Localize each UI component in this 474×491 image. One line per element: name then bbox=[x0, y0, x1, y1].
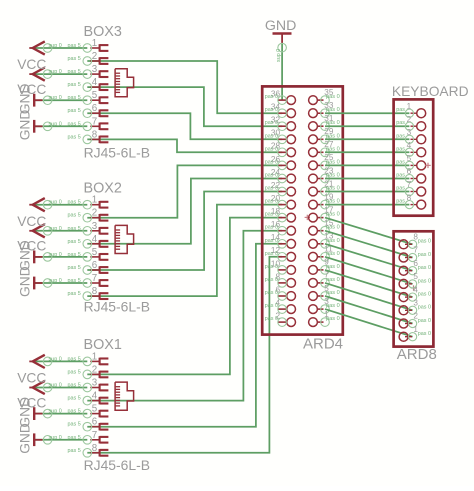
svg-text:sup 0: sup 0 bbox=[49, 200, 62, 206]
svg-text:pas: pas bbox=[396, 159, 405, 165]
svg-text:pas 5: pas 5 bbox=[68, 213, 81, 219]
svg-text:pas 0: pas 0 bbox=[265, 316, 278, 322]
ground symbol (BOX2 pin 7) bbox=[34, 277, 42, 290]
junction circle supply (BOX3 pin 5) bbox=[43, 96, 52, 105]
wire GND to ARD4 pin 36 bbox=[281, 44, 283, 101]
svg-text:pas 5: pas 5 bbox=[68, 356, 81, 362]
origin cross ARD4 bbox=[305, 215, 310, 220]
svg-text:pas 0: pas 0 bbox=[418, 265, 431, 271]
svg-text:2: 2 bbox=[92, 364, 97, 375]
pin ARD4.13 (right row 12) bbox=[309, 232, 340, 249]
pin ARD4.6 (left row 16) bbox=[265, 285, 296, 300]
svg-text:pas 0: pas 0 bbox=[418, 305, 431, 311]
pin ARD4.25 (right row 6) bbox=[309, 153, 340, 170]
svg-text:sup 0: sup 0 bbox=[49, 356, 62, 362]
wire supply to BOX3 pin 7 bbox=[33, 125, 87, 127]
pin ARD4.21 (right row 8) bbox=[309, 179, 340, 196]
pin ARD8.5 bbox=[399, 272, 431, 288]
svg-text:BOX1: BOX1 bbox=[84, 337, 122, 353]
svg-text:pas 0: pas 0 bbox=[418, 252, 431, 258]
wire ARD4 to ARD8 pin 1 bbox=[325, 309, 413, 337]
pin ARD8.2 bbox=[399, 312, 431, 328]
wire BOX2 pin 8 to ARD4 (bend x=216.9) bbox=[87, 205, 282, 297]
svg-text:pas 0: pas 0 bbox=[326, 173, 340, 179]
svg-text:3: 3 bbox=[92, 64, 98, 75]
pin ARD4.2 (left row 18) bbox=[265, 312, 296, 327]
pin KEYBOARD.1 bbox=[396, 102, 425, 118]
svg-text:GND: GND bbox=[17, 110, 32, 141]
pin BOX1.7 bbox=[83, 430, 108, 444]
pin ARD4.33 (right row 2) bbox=[309, 101, 340, 118]
pin BOX3.4 bbox=[83, 77, 108, 91]
svg-text:pas 0: pas 0 bbox=[265, 290, 278, 296]
svg-text:4: 4 bbox=[407, 141, 412, 150]
svg-text:pas 5: pas 5 bbox=[68, 435, 81, 441]
svg-text:GND: GND bbox=[17, 423, 32, 454]
pin junction circle GND bbox=[278, 43, 287, 52]
svg-text:pas 0: pas 0 bbox=[326, 199, 340, 205]
pin BOX3.6 bbox=[83, 103, 108, 117]
svg-text:RJ45-6L-B: RJ45-6L-B bbox=[84, 457, 150, 473]
ground GND supply symbol (top) bbox=[265, 18, 297, 44]
wire BOX1 pin 2 to ARD4 (bend x=229.9) bbox=[87, 218, 282, 375]
svg-text:RJ45-6L-B: RJ45-6L-B bbox=[84, 299, 150, 315]
wire BOX3 pin 4 to ARD4 (bend x=203.9) bbox=[87, 87, 282, 126]
svg-text:pas 5: pas 5 bbox=[68, 291, 81, 297]
pin ARD4.15 (right row 11) bbox=[309, 219, 340, 236]
pin ARD4.1 (right row 18) bbox=[309, 310, 340, 327]
wire supply to BOX2 pin 1 bbox=[33, 204, 87, 206]
svg-text:3: 3 bbox=[92, 378, 98, 389]
svg-text:pas 0: pas 0 bbox=[326, 107, 340, 113]
svg-text:pas: pas bbox=[396, 107, 405, 113]
wire BOX3 pin 6 to ARD4 (bend x=190.4) bbox=[87, 113, 282, 139]
svg-text:pas 5: pas 5 bbox=[68, 95, 81, 101]
svg-text:pas 0: pas 0 bbox=[326, 316, 340, 322]
wire supply to BOX1 pin 7 bbox=[33, 439, 87, 441]
svg-text:sup 0: sup 0 bbox=[49, 383, 62, 389]
svg-text:7: 7 bbox=[407, 180, 412, 189]
svg-text:pas 0: pas 0 bbox=[326, 212, 340, 218]
pin ARD4.24 (left row 7) bbox=[265, 168, 296, 183]
supply VCC arrow (BOX3 pin 1) bbox=[29, 41, 45, 54]
pin BOX3.1 bbox=[83, 38, 108, 52]
origin cross KEYBOARD bbox=[425, 163, 430, 168]
svg-text:pas 5: pas 5 bbox=[68, 265, 81, 271]
wire ARD4 to KEYBOARD pin 3 bbox=[325, 138, 409, 140]
svg-text:GND: GND bbox=[17, 240, 32, 271]
pin ARD8.1 bbox=[399, 325, 431, 341]
svg-text:5: 5 bbox=[407, 154, 412, 163]
wire supply to BOX2 pin 3 bbox=[33, 230, 87, 232]
svg-text:GND: GND bbox=[17, 84, 32, 115]
pin KEYBOARD.5 bbox=[396, 154, 425, 170]
svg-text:pas 0: pas 0 bbox=[265, 212, 278, 218]
pin BOX1.2 bbox=[83, 364, 108, 378]
svg-text:8: 8 bbox=[92, 286, 98, 297]
svg-text:pas 0: pas 0 bbox=[326, 303, 340, 309]
junction circle supply (BOX3 pin 7) bbox=[43, 122, 52, 131]
svg-text:pas 5: pas 5 bbox=[68, 409, 81, 415]
svg-text:pas 5: pas 5 bbox=[68, 422, 81, 428]
wire ARD4 to KEYBOARD pin 7 bbox=[325, 191, 409, 193]
svg-text:BOX3: BOX3 bbox=[84, 24, 122, 40]
svg-text:pas 0: pas 0 bbox=[265, 146, 278, 152]
component outline BOX3 RJ45 jack icon bbox=[115, 69, 134, 97]
pin ARD4.28 (left row 5) bbox=[265, 142, 296, 157]
supply VCC arrow (BOX1 pin 3) bbox=[29, 381, 45, 394]
wire ARD4 to ARD8 pin 8 bbox=[325, 218, 413, 245]
svg-text:3: 3 bbox=[92, 221, 98, 232]
svg-text:pas 5: pas 5 bbox=[68, 383, 81, 389]
pin ARD8.8 bbox=[399, 233, 431, 249]
supply VCC arrow (BOX2 pin 1) bbox=[29, 198, 45, 211]
svg-text:pas: pas bbox=[396, 199, 405, 205]
ground symbol (BOX3 pin 7) bbox=[34, 120, 42, 133]
svg-text:pas 0: pas 0 bbox=[326, 225, 340, 231]
svg-text:pas 0: pas 0 bbox=[326, 159, 340, 165]
pin ARD4.10 (left row 14) bbox=[265, 259, 296, 274]
svg-text:pas 5: pas 5 bbox=[68, 43, 81, 49]
pin ARD4.19 (right row 9) bbox=[309, 192, 340, 209]
svg-text:pas 0: pas 0 bbox=[326, 251, 340, 257]
svg-text:pas 0: pas 0 bbox=[265, 186, 278, 192]
svg-text:8: 8 bbox=[92, 443, 98, 454]
IC ARD4 outline bbox=[262, 86, 343, 334]
svg-text:pas 0: pas 0 bbox=[265, 133, 278, 139]
svg-text:1: 1 bbox=[407, 102, 412, 111]
svg-text:pas 5: pas 5 bbox=[68, 82, 81, 88]
supply VCC arrow (BOX3 pin 3) bbox=[29, 68, 45, 81]
svg-text:pas 0: pas 0 bbox=[326, 94, 340, 100]
svg-text:pas 0: pas 0 bbox=[265, 120, 278, 126]
svg-text:pas 0: pas 0 bbox=[326, 238, 340, 244]
pin ARD4.30 (left row 4) bbox=[265, 129, 296, 144]
pin ARD4.35 (right row 1) bbox=[309, 88, 340, 105]
svg-text:pas: pas bbox=[396, 133, 405, 139]
connector KEYBOARD outline bbox=[394, 99, 434, 215]
svg-text:RJ45-6L-B: RJ45-6L-B bbox=[84, 145, 150, 161]
svg-text:sup 0: sup 0 bbox=[49, 226, 62, 232]
svg-text:4: 4 bbox=[92, 391, 98, 402]
svg-text:7: 7 bbox=[92, 116, 97, 127]
svg-text:pas 5: pas 5 bbox=[68, 396, 81, 402]
pin ARD4.5 (right row 16) bbox=[309, 284, 340, 301]
junction circle supply (BOX2 pin 5) bbox=[43, 253, 52, 262]
component outline BOX1 RJ45 jack icon bbox=[115, 382, 134, 410]
svg-text:pas 0: pas 0 bbox=[418, 278, 431, 284]
pin ARD4.22 (left row 8) bbox=[265, 181, 296, 196]
svg-text:sup 0: sup 0 bbox=[49, 69, 62, 75]
pin ARD4.16 (left row 11) bbox=[265, 220, 296, 235]
svg-text:pas: pas bbox=[396, 173, 405, 179]
svg-text:8: 8 bbox=[407, 193, 412, 202]
svg-text:pas 0: pas 0 bbox=[326, 264, 340, 270]
wire supply to BOX3 pin 3 bbox=[33, 73, 87, 75]
svg-text:8: 8 bbox=[92, 129, 98, 140]
svg-text:pas 0: pas 0 bbox=[265, 238, 278, 244]
svg-text:pas 0: pas 0 bbox=[418, 292, 431, 298]
pin ARD4.34 (left row 2) bbox=[265, 103, 296, 118]
pin ARD4.17 (right row 10) bbox=[309, 205, 340, 222]
pin BOX2.4 bbox=[83, 234, 108, 248]
svg-text:sup 0: sup 0 bbox=[49, 43, 62, 49]
svg-text:5: 5 bbox=[92, 90, 98, 101]
junction circle supply (BOX3 pin 1) bbox=[43, 44, 52, 53]
svg-text:pas 0: pas 0 bbox=[265, 159, 278, 165]
pin ARD4.20 (left row 9) bbox=[265, 194, 296, 209]
svg-text:5: 5 bbox=[92, 247, 98, 258]
pin BOX3.2 bbox=[83, 51, 108, 65]
wire ARD4 to ARD8 pin 5 bbox=[325, 257, 413, 284]
junction circle supply (BOX2 pin 3) bbox=[43, 227, 52, 236]
wire BOX1 pin 6 to ARD4 (bend x=255.9) bbox=[87, 244, 282, 427]
svg-text:pas 5: pas 5 bbox=[68, 278, 81, 284]
pin ARD4.9 (right row 14) bbox=[309, 258, 340, 275]
wire ARD4 to ARD8 pin 3 bbox=[325, 283, 413, 310]
ground symbol (BOX3 pin 5) bbox=[34, 94, 42, 107]
svg-text:pas 5: pas 5 bbox=[68, 239, 81, 245]
svg-text:sup 0: sup 0 bbox=[49, 252, 62, 258]
wire ARD4 to KEYBOARD pin 6 bbox=[325, 178, 409, 180]
pin BOX3.7 bbox=[83, 116, 108, 130]
svg-text:pas: pas bbox=[396, 146, 405, 152]
svg-text:VCC: VCC bbox=[17, 214, 46, 229]
wire supply to BOX2 pin 7 bbox=[33, 282, 87, 284]
pin BOX1.4 bbox=[83, 391, 108, 405]
svg-text:6: 6 bbox=[407, 167, 412, 176]
pin KEYBOARD.8 bbox=[396, 193, 425, 209]
pin ARD8.3 bbox=[399, 299, 431, 315]
svg-text:sup 0: sup 0 bbox=[49, 95, 62, 101]
svg-text:pas 5: pas 5 bbox=[68, 200, 81, 206]
svg-text:3: 3 bbox=[407, 128, 412, 137]
wire ARD4 to ARD8 pin 4 bbox=[325, 270, 413, 297]
pin BOX1.6 bbox=[83, 417, 108, 431]
junction circle supply (BOX1 pin 5) bbox=[43, 409, 52, 418]
svg-text:pas 5: pas 5 bbox=[68, 369, 81, 375]
wire BOX2 pin 4 to ARD4 (bend x=190.9) bbox=[87, 179, 282, 244]
svg-text:6: 6 bbox=[92, 417, 98, 428]
svg-text:pas 0: pas 0 bbox=[326, 120, 340, 126]
pin ARD8.6 bbox=[399, 259, 431, 275]
wire BOX3 pin 8 to ARD4 (bend x=177.0) bbox=[87, 139, 282, 152]
pin BOX2.7 bbox=[83, 273, 108, 287]
wire BOX1 pin 4 to ARD4 (bend x=243.4) bbox=[87, 231, 282, 401]
svg-text:pas 5: pas 5 bbox=[68, 69, 81, 75]
pin BOX1.1 bbox=[83, 351, 108, 365]
svg-text:pas 0: pas 0 bbox=[265, 225, 278, 231]
svg-text:VCC: VCC bbox=[17, 57, 46, 72]
svg-text:pas 0: pas 0 bbox=[265, 303, 278, 309]
svg-text:ARD8: ARD8 bbox=[397, 346, 437, 363]
supply VCC arrow (BOX1 pin 1) bbox=[29, 355, 45, 368]
wire ARD4 to KEYBOARD pin 8 bbox=[325, 204, 409, 206]
pin KEYBOARD.7 bbox=[396, 180, 425, 196]
pin ARD4.31 (right row 3) bbox=[309, 114, 340, 131]
pin ARD4.36 (left row 1) bbox=[265, 90, 296, 105]
wire ARD4 to KEYBOARD pin 1 bbox=[325, 112, 409, 114]
pin BOX1.5 bbox=[83, 404, 108, 418]
svg-text:4: 4 bbox=[92, 234, 98, 245]
svg-text:ARD4: ARD4 bbox=[303, 335, 343, 352]
pin ARD4.14 (left row 12) bbox=[265, 233, 296, 248]
component outline BOX2 RJ45 jack icon bbox=[115, 225, 134, 253]
pin BOX1.8 bbox=[83, 443, 108, 457]
junction circle supply (BOX2 pin 1) bbox=[43, 200, 52, 209]
pin ARD4.27 (right row 5) bbox=[309, 140, 340, 157]
svg-text:pas 5: pas 5 bbox=[68, 121, 81, 127]
pin ARD4.26 (left row 6) bbox=[265, 155, 296, 170]
svg-text:5: 5 bbox=[92, 404, 98, 415]
svg-text:pas 0: pas 0 bbox=[265, 107, 278, 113]
svg-text:pas 0: pas 0 bbox=[265, 264, 278, 270]
svg-text:KEYBOARD: KEYBOARD bbox=[392, 84, 469, 99]
pin BOX2.5 bbox=[83, 247, 108, 261]
svg-text:pas 0: pas 0 bbox=[326, 290, 340, 296]
pin ARD8.4 bbox=[399, 285, 431, 301]
svg-text:7: 7 bbox=[92, 273, 97, 284]
pin BOX3.3 bbox=[83, 64, 108, 78]
svg-text:sup 0: sup 0 bbox=[276, 49, 282, 62]
svg-text:pas 0: pas 0 bbox=[265, 199, 278, 205]
svg-text:VCC: VCC bbox=[17, 371, 46, 386]
wire ARD4 to ARD8 pin 7 bbox=[325, 231, 413, 258]
wire BOX3 pin 2 to ARD4 (bend x=217.2) bbox=[87, 61, 282, 113]
svg-text:pas 0: pas 0 bbox=[265, 94, 278, 100]
wire ARD4 to KEYBOARD pin 4 bbox=[325, 151, 409, 153]
wire BOX1 pin 8 to ARD4 (bend x=269.4) bbox=[87, 257, 282, 453]
svg-text:2: 2 bbox=[92, 51, 97, 62]
pin KEYBOARD.2 bbox=[396, 115, 425, 131]
wire supply to BOX1 pin 5 bbox=[33, 413, 87, 415]
pin KEYBOARD.4 bbox=[396, 141, 425, 157]
pin ARD4.7 (right row 15) bbox=[309, 271, 340, 288]
svg-text:GND: GND bbox=[17, 397, 32, 428]
pin BOX2.2 bbox=[83, 208, 108, 222]
svg-text:pas 0: pas 0 bbox=[265, 277, 278, 283]
wire BOX2 pin 6 to ARD4 (bend x=204.1) bbox=[87, 192, 282, 271]
svg-text:2: 2 bbox=[407, 115, 412, 124]
svg-text:4: 4 bbox=[92, 77, 98, 88]
pin BOX1.3 bbox=[83, 378, 108, 392]
pin ARD4.23 (right row 7) bbox=[309, 166, 340, 183]
svg-text:BOX2: BOX2 bbox=[84, 181, 122, 197]
wire BOX2 pin 2 to ARD4 (bend x=177.4) bbox=[87, 165, 282, 217]
svg-text:pas 5: pas 5 bbox=[68, 134, 81, 140]
pin ARD8.7 bbox=[399, 246, 431, 262]
svg-text:pas 0: pas 0 bbox=[265, 251, 278, 257]
svg-text:6: 6 bbox=[92, 103, 98, 114]
pin ARD4.29 (right row 4) bbox=[309, 127, 340, 144]
pin BOX2.8 bbox=[83, 286, 108, 300]
pin BOX2.3 bbox=[83, 221, 108, 235]
svg-text:GND: GND bbox=[265, 18, 297, 34]
svg-text:sup 0: sup 0 bbox=[49, 435, 62, 441]
supply VCC arrow (BOX2 pin 3) bbox=[29, 224, 45, 237]
wire supply to BOX3 pin 1 bbox=[33, 47, 87, 49]
wire ARD4 to ARD8 pin 6 bbox=[325, 244, 413, 271]
pin ARD4.8 (left row 15) bbox=[265, 272, 296, 287]
junction circle supply (BOX1 pin 1) bbox=[43, 357, 52, 366]
pin ARD4.18 (left row 10) bbox=[265, 207, 296, 222]
svg-text:sup 0: sup 0 bbox=[49, 409, 62, 415]
svg-text:2: 2 bbox=[92, 208, 97, 219]
wire supply to BOX1 pin 3 bbox=[33, 387, 87, 389]
ground symbol (BOX1 pin 5) bbox=[34, 407, 42, 420]
junction circle supply (BOX2 pin 7) bbox=[43, 279, 52, 288]
svg-text:pas 0: pas 0 bbox=[326, 277, 340, 283]
junction circle supply (BOX1 pin 7) bbox=[43, 436, 52, 445]
svg-text:pas 5: pas 5 bbox=[68, 226, 81, 232]
svg-text:pas 0: pas 0 bbox=[326, 133, 340, 139]
junction circle supply (BOX3 pin 3) bbox=[43, 70, 52, 79]
wire ARD4 to ARD8 pin 2 bbox=[325, 296, 413, 324]
svg-text:pas 5: pas 5 bbox=[68, 56, 81, 62]
wire supply to BOX2 pin 5 bbox=[33, 256, 87, 258]
svg-text:pas 5: pas 5 bbox=[68, 448, 81, 454]
svg-text:pas 0: pas 0 bbox=[326, 186, 340, 192]
pin ARD4.4 (left row 17) bbox=[265, 299, 296, 314]
wire ARD4 to KEYBOARD pin 5 bbox=[325, 164, 409, 166]
svg-text:pas 0: pas 0 bbox=[326, 146, 340, 152]
svg-text:pas: pas bbox=[396, 120, 405, 126]
svg-text:GND: GND bbox=[17, 266, 32, 297]
pin KEYBOARD.3 bbox=[396, 128, 425, 144]
svg-text:7: 7 bbox=[92, 430, 97, 441]
wire ARD4 to KEYBOARD pin 2 bbox=[325, 125, 409, 127]
ground symbol (BOX1 pin 7) bbox=[34, 433, 42, 446]
pin BOX2.1 bbox=[83, 195, 108, 209]
pin ARD4.11 (right row 13) bbox=[309, 245, 340, 262]
svg-text:pas 5: pas 5 bbox=[68, 108, 81, 114]
pin KEYBOARD.6 bbox=[396, 167, 425, 183]
wire supply to BOX3 pin 5 bbox=[33, 99, 87, 101]
svg-text:pas 0: pas 0 bbox=[418, 318, 431, 324]
svg-text:sup 0: sup 0 bbox=[49, 121, 62, 127]
pin BOX2.6 bbox=[83, 260, 108, 274]
junction circle supply (BOX1 pin 3) bbox=[43, 383, 52, 392]
svg-text:pas 5: pas 5 bbox=[68, 252, 81, 258]
svg-text:pas 0: pas 0 bbox=[418, 331, 431, 337]
pin ARD4.3 (right row 17) bbox=[309, 297, 340, 314]
svg-text:pas 0: pas 0 bbox=[265, 173, 278, 179]
wire supply to BOX1 pin 1 bbox=[33, 360, 87, 362]
connector ARD8 outline bbox=[394, 231, 434, 346]
svg-text:6: 6 bbox=[92, 260, 98, 271]
pin ARD4.32 (left row 3) bbox=[265, 116, 296, 131]
pin ARD4.12 (left row 13) bbox=[265, 246, 296, 261]
ground symbol (BOX2 pin 5) bbox=[34, 251, 42, 264]
origin cross ARD8 bbox=[411, 285, 416, 290]
pin BOX3.5 bbox=[83, 90, 108, 104]
pin BOX3.8 bbox=[83, 129, 108, 143]
svg-text:sup 0: sup 0 bbox=[49, 278, 62, 284]
svg-text:pas: pas bbox=[396, 186, 405, 192]
svg-text:pas 0: pas 0 bbox=[418, 239, 431, 245]
